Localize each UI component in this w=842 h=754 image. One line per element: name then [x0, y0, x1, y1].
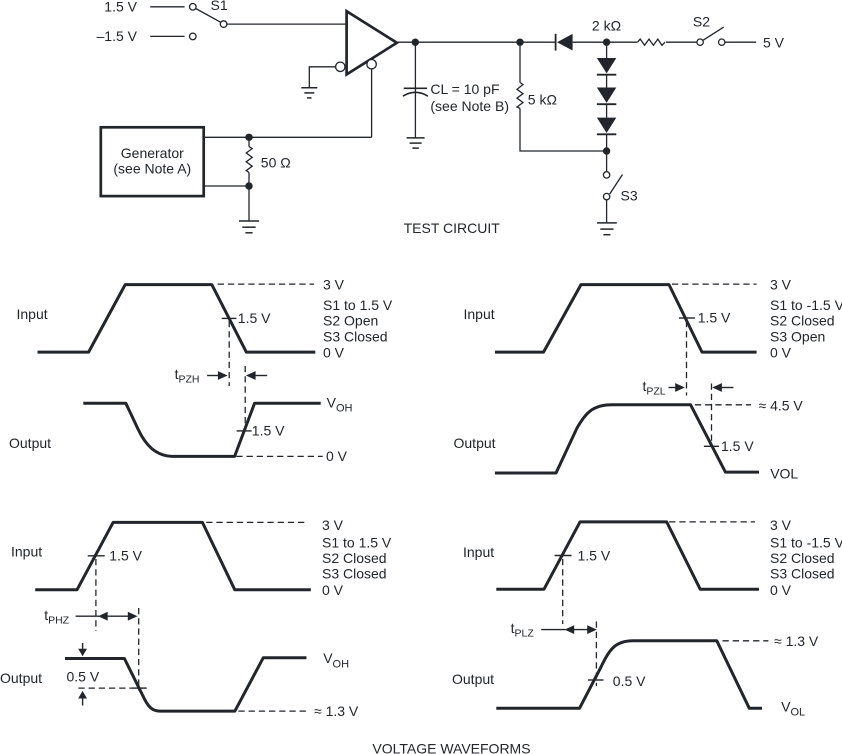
- wire hypotenuse bubble down to generator net: [371, 69, 373, 137]
- BR tPLZ label: [511, 620, 535, 639]
- svg-text:S1: S1: [211, 0, 228, 13]
- buffer enable bubble on left edge: [336, 62, 345, 71]
- svg-text:1.5 V: 1.5 V: [252, 423, 285, 439]
- resistor 5 kOhm: [517, 83, 523, 109]
- TL VOH label: [327, 395, 353, 415]
- svg-text:≈ 1.3 V: ≈ 1.3 V: [774, 633, 819, 649]
- BL 0.5 V label: [67, 669, 100, 685]
- BL output 0.5 V crossing tick: [131, 687, 146, 689]
- resistor 50 Ohm: [246, 147, 252, 173]
- TR Output label: [454, 435, 496, 451]
- TL 3 V dashed level line: [218, 283, 314, 285]
- BR output waveform: [496, 641, 762, 709]
- wire from 1.5 V to S1 pole: [150, 6, 184, 8]
- BR approx 1.3 V label: [774, 633, 819, 649]
- generator box: [101, 127, 204, 196]
- wire buffer output to diode: [398, 41, 556, 43]
- node at diode stack top: [603, 39, 610, 46]
- value label 2 kOhm: [592, 17, 621, 33]
- TL input 1.5 V label: [238, 310, 271, 326]
- TR VOL label: [770, 465, 798, 481]
- BL 0.5 V up arrow: [78, 691, 87, 706]
- svg-text:0.5 V: 0.5 V: [67, 669, 100, 685]
- BL approx 1.3 V label: [314, 703, 359, 719]
- BR Input label: [463, 544, 494, 560]
- svg-text:Input: Input: [464, 306, 495, 322]
- svg-text:S3: S3: [621, 188, 638, 204]
- TL output 1.5 V label: [252, 423, 285, 439]
- svg-text:Input: Input: [17, 306, 48, 322]
- svg-text:5 V: 5 V: [763, 34, 785, 50]
- value label CL = 10 pF: [430, 81, 499, 97]
- BL dashed line at output crossing: [138, 608, 140, 691]
- svg-text:S2 Closed: S2 Closed: [770, 550, 835, 566]
- switch S2 lever: [703, 27, 724, 40]
- TL dashed line at output crossing: [244, 366, 246, 432]
- svg-text:1.5 V: 1.5 V: [698, 310, 731, 326]
- resistor 2 kOhm: [638, 39, 666, 45]
- capacitor CL top plate: [404, 87, 427, 89]
- op-amp U1 three-state buffer: [347, 11, 397, 74]
- TL output waveform: [83, 403, 320, 456]
- node at 50 ohm bottom: [245, 182, 252, 189]
- label -1.5 V source: [97, 28, 138, 44]
- svg-text:tPZH: tPZH: [175, 366, 200, 385]
- diode D2: [597, 58, 616, 75]
- svg-text:S3 Closed: S3 Closed: [323, 328, 388, 344]
- svg-text:Input: Input: [463, 544, 494, 560]
- svg-text:3 V: 3 V: [770, 517, 792, 533]
- svg-text:≈ 1.3 V: ≈ 1.3 V: [314, 703, 359, 719]
- BL condition labels: [322, 517, 392, 598]
- wire S3 to ground: [606, 200, 608, 223]
- svg-text:S2 Closed: S2 Closed: [322, 550, 387, 566]
- BR output 0.5 V crossing tick: [588, 679, 604, 681]
- switch S3 top contact: [603, 172, 609, 178]
- svg-text:CL = 10 pF: CL = 10 pF: [430, 81, 499, 97]
- wire 2 k resistor to S2: [666, 41, 697, 43]
- svg-text:S2: S2: [693, 14, 710, 30]
- wire D3 to D4: [606, 104, 608, 117]
- svg-text:3 V: 3 V: [770, 277, 792, 293]
- node at output and CL: [412, 39, 419, 46]
- TL tPZH right-pointing arrow: [207, 371, 228, 380]
- svg-text:0 V: 0 V: [770, 582, 792, 598]
- BL 0.5 V dashed level line: [78, 687, 131, 689]
- svg-text:Input: Input: [11, 544, 42, 560]
- BR dashed line at input crossing: [562, 559, 564, 624]
- TL 0 V dashed level line: [236, 455, 322, 457]
- ground under CL: [407, 138, 425, 148]
- wire node down to 5 k resistor: [519, 42, 521, 82]
- svg-text:S2 Open: S2 Open: [323, 313, 378, 329]
- generator label: [121, 145, 184, 161]
- BL Input label: [11, 544, 42, 560]
- svg-text:S1 to -1.5 V: S1 to -1.5 V: [770, 534, 842, 550]
- ground under generator: [239, 221, 259, 233]
- svg-text:0 V: 0 V: [770, 345, 792, 361]
- svg-text:Generator: Generator: [121, 145, 184, 161]
- TR approx 4.5 V label: [759, 398, 804, 414]
- TL tPZH label: [175, 366, 200, 385]
- BR 1.3 V dashed level line: [723, 640, 769, 642]
- svg-text:tPHZ: tPHZ: [44, 607, 69, 626]
- wire from -1.5 V to open contact: [150, 35, 184, 37]
- wire generator output to enable net: [205, 136, 372, 138]
- TR input 1.5 V crossing tick: [679, 317, 695, 319]
- BL 1.3 V dashed level line: [238, 710, 309, 712]
- switch S3 label: [621, 188, 638, 204]
- BL Output label: [0, 670, 42, 686]
- svg-text:2 kΩ: 2 kΩ: [592, 17, 621, 33]
- switch S2 pole contact: [697, 39, 703, 45]
- svg-text:0 V: 0 V: [323, 345, 345, 361]
- switch S2 label: [693, 14, 710, 30]
- buffer enable bubble on hypotenuse: [367, 59, 376, 68]
- TR Input label: [464, 306, 495, 322]
- BL tPHZ double arrow: [98, 612, 138, 621]
- svg-text:3 V: 3 V: [322, 517, 344, 533]
- TR 3 V dashed level line: [672, 283, 757, 285]
- svg-text:0 V: 0 V: [326, 448, 348, 464]
- svg-text:VOL: VOL: [781, 699, 805, 719]
- BL input 1.5 V crossing tick: [88, 555, 105, 557]
- caption VOLTAGE WAVEFORMS: [372, 741, 530, 754]
- svg-text:Output: Output: [0, 670, 42, 686]
- switch S1 open contact: [190, 33, 197, 40]
- BR VOL label: [781, 699, 805, 719]
- node at 50 ohm top: [245, 134, 252, 141]
- svg-text:Output: Output: [452, 671, 494, 687]
- TR 4.5 V dashed level line: [695, 404, 751, 406]
- svg-text:(see Note B): (see Note B): [430, 98, 509, 114]
- switch S1 pole contact: [190, 4, 197, 11]
- TL tPZH left-pointing arrow: [246, 371, 267, 380]
- svg-text:–1.5 V: –1.5 V: [97, 28, 138, 44]
- diode D4: [597, 118, 616, 135]
- TL dashed line at input crossing: [228, 321, 230, 386]
- TR output 1.5 V label: [721, 438, 754, 454]
- TR dashed line at input crossing: [686, 321, 688, 396]
- svg-text:(see Note A): (see Note A): [113, 161, 191, 177]
- wire 5 k resistor to diode stack bottom node: [520, 108, 604, 151]
- TR dashed line at output crossing: [711, 384, 713, 448]
- TR condition labels: [770, 277, 842, 361]
- diode D3: [597, 88, 616, 105]
- wire node to S3: [606, 151, 608, 172]
- TL condition labels: [323, 277, 393, 361]
- BL input 1.5 V label: [109, 548, 142, 564]
- svg-text:VOL: VOL: [770, 465, 798, 481]
- wire enable bubble to ground: [309, 67, 335, 88]
- BL output waveform: [65, 658, 307, 711]
- svg-text:tPLZ: tPLZ: [511, 620, 535, 639]
- BR input waveform: [496, 522, 759, 589]
- svg-text:S1 to 1.5 V: S1 to 1.5 V: [323, 297, 393, 313]
- wire diode to 2 k resistor: [573, 41, 638, 43]
- svg-text:1.5 V: 1.5 V: [721, 438, 754, 454]
- TR output waveform: [495, 405, 759, 473]
- ground under enable bubble: [301, 88, 317, 98]
- TR tPZL label: [643, 378, 666, 397]
- BL input waveform: [35, 522, 311, 589]
- svg-text:1.5 V: 1.5 V: [238, 310, 271, 326]
- BR dashed line at output crossing: [595, 622, 597, 687]
- label 1.5 V source: [104, 0, 137, 15]
- svg-text:S3 Closed: S3 Closed: [322, 566, 387, 582]
- wire D2 to D3: [606, 75, 608, 88]
- value label 5 kOhm: [528, 92, 557, 108]
- TR input waveform: [495, 285, 757, 353]
- wire D4 to bottom node: [606, 134, 608, 151]
- svg-text:1.5 V: 1.5 V: [104, 0, 137, 15]
- svg-text:50 Ω: 50 Ω: [261, 154, 291, 170]
- BR input 1.5 V label: [578, 548, 611, 564]
- svg-text:S1 to -1.5 V: S1 to -1.5 V: [770, 297, 842, 313]
- caption TEST CIRCUIT: [404, 220, 501, 236]
- BR 3 V dashed level line: [669, 521, 755, 523]
- wire node to diode D2: [606, 42, 608, 58]
- diode D1 clamp (points left): [556, 34, 573, 51]
- BR tPLZ double arrow: [565, 625, 597, 634]
- svg-text:TEST CIRCUIT: TEST CIRCUIT: [404, 220, 501, 236]
- BL VOH label: [323, 650, 349, 670]
- wire node to ground: [248, 186, 250, 221]
- svg-text:tPZL: tPZL: [643, 378, 666, 397]
- node at 5 k resistor: [516, 39, 523, 46]
- BR input 1.5 V crossing tick: [555, 555, 572, 557]
- BL 3 V dashed level line: [206, 521, 307, 523]
- svg-text:1.5 V: 1.5 V: [578, 548, 611, 564]
- svg-text:1.5 V: 1.5 V: [109, 548, 142, 564]
- svg-text:VOLTAGE WAVEFORMS: VOLTAGE WAVEFORMS: [372, 741, 530, 754]
- note label (see Note A): [113, 161, 191, 177]
- BR tPLZ leader line: [541, 629, 565, 631]
- svg-text:S3 Closed: S3 Closed: [770, 566, 835, 582]
- switch S1 label: [211, 0, 228, 13]
- capacitor CL curved plate: [404, 92, 428, 95]
- value label 50 Ohm: [261, 154, 291, 170]
- TR tPZL right-pointing arrow: [669, 383, 685, 392]
- TR output 1.5 V crossing tick: [704, 445, 719, 447]
- wire generator return: [205, 185, 250, 187]
- svg-text:0.5 V: 0.5 V: [613, 673, 646, 689]
- svg-text:0 V: 0 V: [322, 582, 344, 598]
- TL output 0 V label: [326, 448, 348, 464]
- switch S2 throw contact: [719, 39, 725, 45]
- svg-text:≈ 4.5 V: ≈ 4.5 V: [759, 398, 804, 414]
- TR tPZL left-pointing arrow: [712, 383, 733, 392]
- svg-text:3 V: 3 V: [323, 277, 345, 293]
- BR condition labels: [770, 517, 842, 598]
- switch S3 lever: [610, 175, 623, 195]
- BL tPHZ leader line: [76, 615, 99, 617]
- ground under S3: [597, 223, 617, 235]
- svg-text:S3 Open: S3 Open: [770, 328, 825, 344]
- TR input 1.5 V label: [698, 310, 731, 326]
- wire node to 50 ohm: [248, 137, 250, 146]
- note label (see Note B): [430, 98, 509, 114]
- TL input 1.5 V crossing tick: [222, 317, 237, 319]
- label 5 V supply: [763, 34, 785, 50]
- BR 0.5 V label: [613, 673, 646, 689]
- svg-text:S2 Closed: S2 Closed: [770, 313, 835, 329]
- svg-text:5 kΩ: 5 kΩ: [528, 92, 557, 108]
- wire 50 ohm to node: [248, 173, 250, 187]
- BL tPHZ label: [44, 607, 69, 626]
- wire S2 to 5 V: [725, 41, 756, 43]
- TL Input label: [17, 306, 48, 322]
- TL output 1.5 V crossing tick: [237, 430, 252, 432]
- BR Output label: [452, 671, 494, 687]
- switch S1 throw contact: [220, 21, 227, 28]
- TL Output label: [9, 435, 51, 451]
- svg-text:Output: Output: [9, 435, 51, 451]
- node diode stack bottom: [603, 147, 610, 154]
- BL VOH down arrow: [78, 643, 87, 656]
- wire S1 to buffer input: [227, 23, 346, 25]
- TL input waveform: [38, 285, 316, 353]
- wire output node down to CL: [414, 42, 416, 138]
- switch S3 bottom contact: [603, 193, 609, 199]
- svg-text:VOH: VOH: [323, 650, 349, 670]
- svg-text:S1 to 1.5 V: S1 to 1.5 V: [322, 534, 392, 550]
- svg-text:Output: Output: [454, 435, 496, 451]
- svg-text:VOH: VOH: [327, 395, 353, 415]
- switch S1 lever: [196, 9, 221, 23]
- BL dashed line at input crossing: [95, 559, 97, 631]
